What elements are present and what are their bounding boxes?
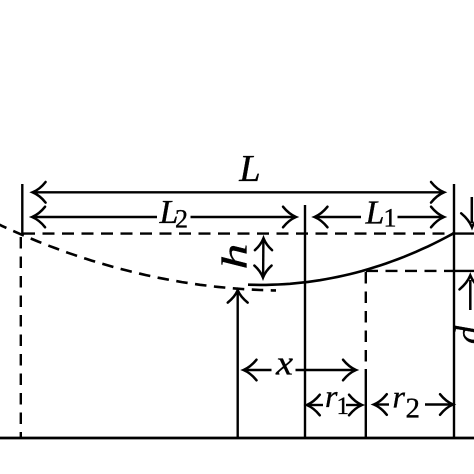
middle tower line [304,205,306,438]
dimension line r1 [307,404,323,406]
dashed catenary (initial conductor) [0,223,276,290]
d dimension down arrow [471,197,474,223]
top dashed horizontal (support level) [23,232,453,234]
lower extension line right of support [454,270,474,272]
svg-text:2: 2 [175,205,188,234]
svg-text:2: 2 [406,393,421,425]
svg-text:L: L [238,148,260,190]
solid vertical divider between r1 and r2 [365,369,367,438]
dashed vertical from point P [365,272,367,369]
svg-text:1: 1 [384,204,397,233]
svg-text:x: x [275,344,294,383]
svg-text:d: d [449,325,474,344]
dimension line x [244,369,272,371]
svg-text:h: h [215,244,255,270]
lower dashed horizontal (point P level) [366,270,453,272]
top extension line right of support [454,232,474,234]
solid catenary (final conductor) [248,233,455,285]
arrow to lowest point of initial curve [236,292,238,439]
left support tick [21,184,23,235]
dimension line L [33,191,444,193]
svg-text:r: r [393,379,406,415]
svg-text:L: L [365,195,385,232]
dimension line L2 [33,216,158,218]
left dashed vertical (projection of left low point) [20,237,22,438]
ground line [0,437,474,440]
right support line [453,184,455,438]
dimension line r2 [374,403,389,405]
dimension line L1 [315,216,361,218]
svg-text:1: 1 [337,393,350,420]
dimension arrow h (double headed) [262,239,265,277]
d dimension up arrow [469,280,472,310]
